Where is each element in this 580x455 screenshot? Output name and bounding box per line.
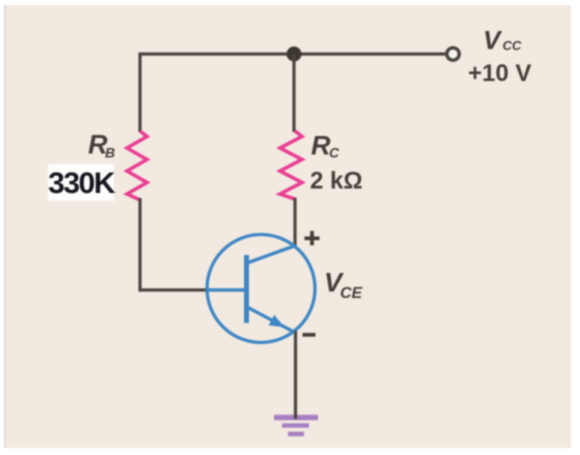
svg-text:V: V — [483, 25, 503, 55]
label VCC — [483, 25, 522, 55]
node A: junction dot at top of RC branch — [287, 47, 302, 62]
svg-text:2 kΩ: 2 kΩ — [310, 168, 363, 195]
transistor Q1 base bar — [244, 255, 249, 323]
label 2 kOhm — [310, 168, 363, 195]
svg-text:B: B — [105, 145, 115, 161]
wire: collector wire from RC down to transistor — [293, 198, 296, 247]
svg-text:R: R — [311, 131, 331, 161]
wire: mid vertical from junction down to RC — [292, 54, 295, 132]
transistor Q1 emitter arrowhead — [269, 315, 285, 327]
resistor RC zigzag — [280, 131, 302, 200]
wire: left vertical from top rail down to RB — [138, 52, 141, 132]
label VCE — [324, 268, 364, 303]
terminal VCC: open circle — [447, 48, 459, 60]
transistor Q1 circle — [207, 235, 315, 343]
svg-text:330K: 330K — [48, 167, 116, 200]
wire: top rail from RB branch to VCC terminal — [140, 52, 447, 55]
label RC — [311, 131, 340, 161]
svg-text:C: C — [329, 145, 340, 161]
wire: left vertical from RB down to base corner — [138, 198, 141, 292]
transistor Q1 collector stroke — [247, 246, 296, 264]
svg-text:CC: CC — [503, 38, 522, 53]
transistor Q1 emitter stroke — [247, 307, 294, 332]
label + (collector polarity) — [305, 231, 320, 245]
label RB — [88, 130, 115, 161]
svg-text:CE: CE — [340, 285, 364, 302]
wire: horizontal base wire to transistor — [138, 288, 209, 291]
label - (emitter polarity) — [303, 333, 316, 337]
label +10 V — [468, 60, 531, 87]
svg-text:+10 V: +10 V — [468, 60, 531, 87]
wire: emitter wire down to ground — [294, 331, 297, 419]
transistor Q1 base lead (blue) — [207, 288, 247, 291]
resistor RB zigzag — [127, 131, 147, 200]
ground symbol — [274, 418, 318, 435]
value box 330K — [48, 164, 116, 201]
